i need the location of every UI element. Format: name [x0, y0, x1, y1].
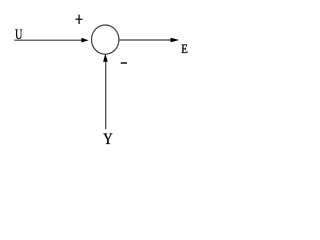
summing junction block diagram	[0, 0, 203, 158]
summing junction circle	[92, 25, 119, 54]
svg-text:E: E	[181, 41, 188, 56]
arrowhead into summing junction left	[81, 38, 88, 43]
wire U input	[14, 39, 82, 41]
arrowhead to E	[171, 38, 180, 43]
minus sign	[121, 62, 127, 64]
svg-text:Y: Y	[103, 131, 113, 148]
arrowhead into summing junction bottom	[103, 54, 108, 62]
wire Y feedback	[105, 61, 107, 130]
plus sign	[76, 15, 83, 24]
wire E output	[119, 39, 172, 41]
